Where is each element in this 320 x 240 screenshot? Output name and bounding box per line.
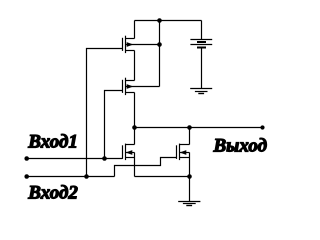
node: output terminal dot <box>260 125 264 129</box>
wire: output rail <box>135 127 263 129</box>
ground (battery negative) <box>190 89 212 94</box>
wire: Вход1 <box>27 158 123 160</box>
transistor VT1 (PMOS top) <box>123 36 160 53</box>
wire: VT1 source to VT2 drain <box>134 51 136 81</box>
wire: VT4 bulk+source to ground rail <box>189 153 191 177</box>
node: Вход2 terminal dot <box>24 174 29 179</box>
wire: Вход2 <box>27 176 115 178</box>
wire: VT1 gate to Вход2 <box>87 49 123 177</box>
svg-text:Выход: Выход <box>213 136 268 157</box>
junction dot: VT2 source / VT3 drain at output <box>132 125 137 130</box>
wire: n-bulk rail from VDD <box>159 21 161 87</box>
junction dot: VT2 gate at Вход1 <box>102 156 107 161</box>
wire: ground rail to ground <box>189 177 191 202</box>
junction dot: VT4 drain at output <box>187 125 192 130</box>
wire: VT1 drain to VDD rail <box>134 21 136 39</box>
wire: VT4 drain to output rail <box>189 128 191 145</box>
wire: VDD top rail <box>135 20 202 22</box>
wire: battery negative to ground <box>201 49 203 89</box>
junction dot: bulk rail at VDD rail <box>157 18 162 23</box>
svg-text:Вход2: Вход2 <box>27 182 78 203</box>
junction dot: VT1 gate at Вход2 <box>84 174 89 179</box>
wire: VT3 bulk+source to ground rail <box>134 153 136 177</box>
transistor VT2 (PMOS lower) <box>123 78 160 95</box>
svg-text:Вход1: Вход1 <box>27 132 78 153</box>
wire: Вход2 to VT4 gate <box>115 158 177 177</box>
junction dot: VT1 bulk at bulk rail <box>157 42 162 47</box>
transistor VT4 (NMOS right) <box>177 144 190 161</box>
node: Вход1 terminal dot <box>24 156 29 161</box>
wire: battery positive lead <box>201 21 203 40</box>
junction dot: ground rail at VT4 source <box>187 174 192 179</box>
battery GB1 <box>190 40 212 48</box>
wire: VT2 source to output node <box>134 93 136 128</box>
ground (circuit common) <box>178 202 200 206</box>
transistor VT3 (NMOS left) <box>123 144 135 161</box>
wire: VT2 gate to Вход1 <box>105 91 123 159</box>
wire: ground rail <box>135 176 190 178</box>
wire: VT3 drain to output rail <box>134 128 136 145</box>
